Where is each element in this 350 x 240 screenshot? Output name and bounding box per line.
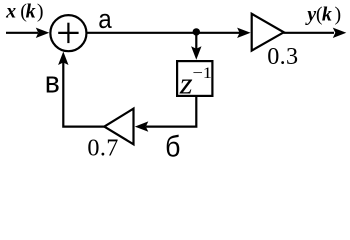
svg-text:б: б [165, 131, 180, 164]
svg-text:а: а [98, 4, 112, 34]
svg-text:−1: −1 [192, 65, 212, 82]
svg-text:x(k): x(k) [5, 1, 43, 23]
svg-text:z: z [179, 66, 193, 101]
svg-text:в: в [45, 64, 60, 99]
svg-text:0.7: 0.7 [87, 135, 118, 162]
svg-text:0.3: 0.3 [267, 43, 298, 70]
svg-text:y(k): y(k) [305, 3, 341, 25]
